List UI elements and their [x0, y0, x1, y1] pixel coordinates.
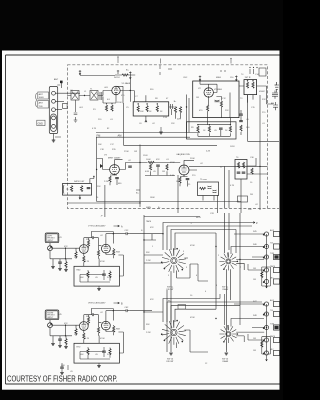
resistor under converter 3: [229, 126, 231, 132]
svg-text:1ST IF: 1ST IF: [245, 77, 252, 79]
wire ground mid IF: [160, 127, 162, 132]
LEFT PHONO INPUT box: [45, 233, 59, 243]
V7a electrodes: [82, 244, 87, 253]
rotor SW1a front: [161, 248, 186, 273]
wire B+ bus segment: [115, 74, 135, 76]
resistor row under converter 2: [208, 126, 210, 132]
wire detector loads to bus: [145, 167, 175, 176]
jack box SPARE L: [274, 279, 280, 284]
dashed tuner enclosure box: [68, 65, 280, 209]
wire terminal3: [55, 109, 62, 111]
feedback resistor 1: [87, 272, 89, 278]
jack box SPARE R: [274, 350, 280, 355]
brace for antenna labels: [35, 93, 38, 107]
cap C21 vertical: [156, 165, 160, 166]
bias dots: [106, 103, 113, 104]
wire cap stack: [240, 110, 242, 135]
white scanned page: [2, 51, 280, 390]
svg-text:REAR: REAR: [223, 288, 229, 291]
ratio det winding 2: [242, 162, 244, 168]
svg-text:→B: →B: [235, 201, 239, 203]
V3 cathode network resistor: [109, 176, 111, 182]
V7b electrodes: [104, 244, 109, 253]
svg-text:T.B.: T.B.: [270, 243, 274, 245]
tick marks B+ strip: [160, 65, 254, 75]
svg-text:6FB7 12AX7: 6FB7 12AX7: [108, 157, 121, 160]
jack TUNER L shielded: [263, 255, 269, 259]
wire V1 leads: [111, 86, 123, 103]
svg-text:V2 6BE6: V2 6BE6: [214, 89, 223, 91]
svg-text:1M: 1M: [253, 279, 256, 281]
svg-text:ANT: ANT: [39, 102, 44, 105]
svg-text:300Ω: 300Ω: [39, 97, 44, 99]
jack SPARE R: [263, 351, 269, 355]
svg-text:470K: 470K: [100, 261, 105, 263]
svg-text:AM: AM: [118, 134, 122, 138]
output cap: [125, 309, 129, 312]
jack TUNER R shielded: [263, 325, 269, 329]
wire decoupling: [62, 363, 68, 372]
feedback resistor 2: [109, 349, 111, 355]
coil box 1: [71, 91, 79, 101]
tube V8a envelope: [79, 322, 88, 331]
resistor bracket lower jacks: [262, 337, 271, 354]
B+ arrow into converter: [199, 76, 201, 82]
wire V8b plate out: [106, 311, 125, 322]
V2 cathode resistor: [207, 105, 209, 111]
wire grid leak: [98, 246, 100, 259]
svg-text:75 usec: 75 usec: [200, 179, 207, 181]
AM loop antenna symbol: [275, 82, 280, 92]
wire right edge vertical: [267, 82, 277, 104]
wire converter bottom bus: [198, 118, 231, 137]
cathode resistor V7b: [113, 249, 115, 255]
wire rotor1 right link: [190, 264, 208, 281]
left column cap cluster: [75, 100, 77, 120]
coupling cap C20: [128, 166, 132, 167]
antenna lead-in wire: [57, 82, 61, 88]
V4 electrodes: [182, 165, 187, 175]
wire grid resistor: [75, 325, 77, 336]
svg-text:1W: 1W: [134, 151, 137, 153]
B plus wire phono: [91, 232, 113, 244]
pin dots row top right: [220, 67, 257, 72]
wire converter to T3: [239, 85, 267, 87]
wire V8a plate up: [84, 315, 92, 322]
de-emphasis cap curl 1: [208, 186, 212, 189]
wire rotor2 drops: [226, 263, 244, 352]
wire V3 output right: [119, 163, 147, 170]
ground input left: [51, 267, 55, 269]
wire V7a plate up: [84, 238, 92, 245]
svg-text:TUN: TUN: [270, 253, 275, 255]
ticks above dashed line: [118, 57, 231, 64]
coil X symbol 2: [91, 92, 97, 100]
wire plate r: [88, 238, 90, 249]
svg-text:FRONT: FRONT: [167, 289, 175, 291]
wire IF strip verticals: [169, 95, 189, 133]
tube V4 envelope: [179, 165, 189, 175]
svg-text:INPUT: INPUT: [47, 317, 54, 319]
wire jack to grid: [50, 243, 80, 249]
wire fb gnd: [98, 363, 100, 365]
FM antenna coil L1: [67, 95, 103, 97]
wire cathode V7a: [83, 253, 85, 266]
svg-text:180K: 180K: [150, 197, 155, 199]
ground decoupling: [60, 373, 64, 375]
label box ANT 300 ohm: [38, 92, 49, 99]
main vertical wire center: [136, 145, 140, 208]
jack pin: [48, 324, 51, 327]
jack box AUX R: [274, 301, 280, 306]
ground input cap: [58, 346, 62, 348]
jack box TAPE L: [274, 244, 280, 249]
V1 bias resistor b: [111, 105, 113, 111]
plate resistor V8a: [87, 317, 89, 323]
selector bus nested wires lower: [163, 299, 262, 323]
terminal 2: [52, 99, 56, 103]
svg-text:ANT: ANT: [39, 93, 44, 96]
tube V7a envelope: [79, 245, 88, 254]
svg-text:270K: 270K: [124, 151, 129, 153]
wire below input elements: [60, 264, 66, 270]
ground input cap: [58, 269, 62, 271]
wire V2 cathode: [208, 97, 209, 117]
svg-text:1M: 1M: [253, 268, 256, 270]
de-emphasis network box: [198, 182, 219, 196]
coupling cap: [91, 313, 95, 316]
wire T3 down: [248, 95, 254, 103]
decoupling caps below right channel: [60, 367, 64, 368]
svg-text:GND: GND: [38, 122, 44, 125]
feedback wiring: [80, 270, 110, 282]
wire cathode V7b: [106, 248, 114, 258]
terminal 3: [52, 108, 56, 112]
wire V3 cathode: [110, 174, 117, 185]
wire across lower mid: [68, 202, 242, 204]
svg-text:AUX: AUX: [270, 229, 275, 232]
svg-text:1M: 1M: [74, 257, 77, 259]
wire nested drop to rotor2: [216, 213, 240, 309]
jack feed dot: [266, 246, 267, 247]
det coil brace: [62, 185, 65, 194]
rotor SW1b rear: [219, 325, 238, 343]
svg-text:5.6K: 5.6K: [107, 277, 112, 279]
svg-text:2.2M: 2.2M: [104, 181, 109, 183]
tube V8b envelope: [102, 321, 111, 330]
ground below rotor1: [169, 353, 173, 355]
tube V7b envelope: [102, 244, 111, 253]
feedback cap 1: [102, 274, 106, 275]
wire verticals crossing divider: [105, 166, 241, 217]
jack box MIC L: [274, 267, 280, 272]
wire V2 plate top: [200, 81, 217, 93]
wire coil to V1: [103, 91, 112, 96]
wire below upper jacks: [266, 284, 268, 288]
svg-text:MIC: MIC: [270, 349, 274, 351]
wire rotor4 to jacks: [231, 304, 264, 332]
RIGHT PHONO INPUT box: [45, 310, 59, 320]
jack column vertical link lower: [266, 304, 268, 353]
tube V1 6AU8 envelope: [112, 86, 120, 94]
svg-text:ANT: ANT: [54, 78, 59, 81]
left column cap: [74, 113, 78, 115]
svg-text:105V: 105V: [230, 146, 235, 148]
svg-text:COURTESY OF FISHER RADIO CORP.: COURTESY OF FISHER RADIO CORP.: [7, 374, 118, 383]
row dots: [197, 124, 198, 125]
det element 3: [87, 188, 91, 189]
page frame border: [6, 55, 280, 384]
jack box TUNER R: [274, 325, 280, 330]
T3 winding left: [246, 82, 248, 88]
wire cathode V8a: [83, 330, 85, 343]
input ground bus: [50, 248, 72, 266]
resistor R21 vertical: [149, 164, 151, 170]
svg-text:1M: 1M: [162, 171, 165, 173]
right phono channel: [45, 302, 152, 368]
diode arrow 1: [100, 164, 103, 168]
svg-text:2M: 2M: [250, 194, 253, 196]
electrolytic right: [251, 168, 253, 174]
cap right of T2: [171, 104, 173, 115]
ground link plate: [51, 114, 57, 131]
svg-text:FM: FM: [97, 134, 101, 138]
ratio detector box: [235, 160, 247, 180]
wire ratio det right: [247, 150, 268, 210]
svg-text:MIC: MIC: [270, 278, 274, 280]
bracket resistor element lower: [261, 341, 263, 347]
input bus dots: [65, 325, 66, 337]
svg-text:V8 ECC83/12AX7: V8 ECC83/12AX7: [88, 302, 106, 305]
cap stack right 1: [239, 114, 243, 115]
wire V4 cathode: [180, 175, 188, 187]
jack TAPE R: [263, 312, 269, 316]
svg-text:6.8K: 6.8K: [145, 171, 150, 173]
svg-text:TAPE: TAPE: [146, 220, 152, 223]
resistor bracket upper jacks: [262, 267, 271, 286]
1st IF can T3: [244, 80, 257, 95]
svg-text:6AQ8/ECC85: 6AQ8/ECC85: [177, 153, 191, 156]
ground feedback: [97, 366, 101, 368]
B+ arrow into converter right: [235, 76, 237, 82]
B+ feed symbol 2 with resistor: [114, 70, 120, 79]
coupling cap: [91, 236, 95, 239]
cap stack right 2: [239, 121, 243, 122]
svg-text:1M: 1M: [196, 97, 199, 99]
wire grid resistor: [75, 248, 77, 259]
decoupling resistor on B+ bus: [122, 74, 128, 76]
feedback cap 1: [102, 351, 106, 352]
wire below input elements: [60, 341, 66, 347]
input resistor: [65, 339, 67, 345]
V2 electrodes: [206, 88, 211, 98]
det T feed dot: [93, 176, 94, 177]
ground input left: [51, 344, 55, 346]
svg-text:2.2M: 2.2M: [146, 260, 151, 262]
small box lower bus: [178, 305, 186, 310]
ground feedback: [97, 289, 101, 291]
rotor SW1b front: [161, 320, 186, 345]
svg-text:REAR: REAR: [223, 360, 229, 363]
jack pin: [48, 247, 51, 250]
svg-text:TAPE: TAPE: [270, 335, 276, 338]
label box ANT 75 ohm: [38, 101, 49, 109]
wire cap to V8b grid: [95, 315, 101, 323]
svg-text:T.B.: T.B.: [270, 310, 274, 312]
svg-text:100K: 100K: [146, 159, 151, 161]
svg-text:AUX: AUX: [270, 299, 275, 302]
svg-text:75Ω: 75Ω: [39, 106, 43, 108]
wire det box up: [90, 177, 94, 184]
wire feedback to cathode: [99, 255, 123, 276]
T2 top dots: [138, 103, 139, 104]
wire left feed vertical: [144, 215, 163, 330]
svg-text:2.2K: 2.2K: [206, 151, 211, 153]
grid resistor 1M: [75, 329, 77, 335]
V4 cathode cap: [186, 179, 190, 180]
resistor net right of T2 b: [179, 107, 181, 113]
T2 winding 3: [156, 106, 158, 112]
svg-text:4.7K: 4.7K: [92, 128, 97, 130]
svg-text:2.2M: 2.2M: [146, 332, 151, 334]
wire rotor1 bottom drops: [167, 258, 190, 352]
svg-text:1M: 1M: [253, 350, 256, 352]
wire jack stubs: [144, 217, 264, 341]
B+ arrow into V1 plate choke: [129, 72, 131, 80]
svg-text:456KC: 456KC: [259, 91, 266, 93]
wire V7b plate out: [106, 234, 125, 245]
cathode resistor V7a: [83, 256, 85, 262]
cap under converter: [219, 128, 223, 129]
selector bus nested wires upper: [163, 223, 252, 251]
jack feed dot lower: [266, 313, 267, 314]
arrow Z output: [252, 222, 255, 224]
ratio det winding 1: [237, 162, 239, 168]
bracket resistor element: [261, 272, 263, 278]
terminal 5: [52, 125, 56, 129]
ground below rotor2: [225, 353, 229, 355]
svg-text:150V: 150V: [143, 155, 148, 157]
jack column vertical link upper: [266, 234, 268, 288]
de-emphasis cap curl 2: [213, 190, 217, 193]
resistor row under converter 1: [197, 126, 199, 132]
V3 cathode cap: [115, 178, 119, 179]
T2 winding 2: [146, 106, 148, 112]
svg-text:220K: 220K: [190, 158, 195, 160]
interstage transformer box T2: [133, 102, 169, 116]
wire de-emphasis down: [203, 196, 214, 201]
jack SPARE L: [263, 279, 269, 283]
small box right of de-emphasis: [238, 196, 248, 202]
wire terminal2: [55, 100, 64, 102]
det element 2: [81, 186, 83, 192]
T3 dots: [247, 80, 248, 81]
svg-text:3.3K: 3.3K: [170, 175, 175, 177]
svg-text:1M: 1M: [253, 338, 256, 340]
svg-text:1M: 1M: [74, 334, 77, 336]
V8a electrodes: [82, 321, 87, 330]
jack box TAPE R: [274, 311, 280, 316]
coil junction dot: [84, 95, 85, 96]
B+ feed symbol 1: [79, 70, 81, 75]
terminal strip TB1: [49, 87, 57, 134]
T2 winding 1: [137, 106, 139, 112]
wire jack to grid: [50, 320, 80, 326]
plate resistor V7a: [87, 240, 89, 246]
wire V3 plate up: [115, 160, 123, 165]
ground input resistor: [64, 270, 68, 272]
jack TAPE L: [263, 244, 269, 248]
svg-text:P.U.: P.U.: [168, 301, 172, 303]
svg-text:TAPE: TAPE: [270, 265, 276, 268]
svg-text:470K: 470K: [100, 338, 105, 340]
wire V1 plate to T2: [123, 79, 134, 102]
RF coil T1 secondary: [100, 92, 102, 100]
resistor R20 horizontal: [148, 161, 154, 163]
feedback box: [74, 343, 119, 363]
T3 winding right: [252, 82, 254, 88]
jack MIC L: [263, 268, 269, 272]
svg-text:R4 1K: R4 1K: [114, 77, 120, 79]
wire plate r: [88, 315, 90, 326]
jack MIC R: [263, 338, 269, 342]
svg-text:1.5K: 1.5K: [163, 117, 168, 119]
input cap: [58, 262, 62, 263]
jack AUX R: [263, 302, 269, 306]
svg-text:AM: AM: [271, 102, 274, 105]
svg-text:OSC: OSC: [183, 77, 188, 79]
ground below strip: [52, 140, 56, 142]
label GND box: [37, 120, 45, 125]
antenna terminal square: [60, 81, 63, 84]
svg-text:5.6K: 5.6K: [107, 354, 112, 356]
svg-text:470K: 470K: [170, 162, 175, 164]
V2 grid cap C11: [215, 100, 220, 102]
cathode resistor V8b: [113, 326, 115, 332]
svg-text:V7 ECC83/12AX7: V7 ECC83/12AX7: [88, 225, 106, 228]
wire feedback to cathode: [99, 332, 123, 353]
resistor net right of T2: [174, 107, 176, 113]
de-emphasis resistor: [200, 187, 206, 189]
coil X symbol 1: [72, 92, 78, 100]
left phono channel: [45, 225, 163, 291]
V3 grid components left: [97, 137, 110, 201]
svg-text:V1 6AU8: V1 6AU8: [122, 82, 132, 85]
svg-text:MON: MON: [196, 217, 201, 219]
jack box TUNER L: [274, 254, 280, 259]
input ground bus: [50, 325, 72, 343]
wire B+ rail top: [80, 75, 115, 77]
resistor stack right: [240, 125, 242, 131]
terminal 4: [52, 116, 56, 120]
jack box MIC R: [274, 337, 280, 342]
wire efter R20: [153, 162, 180, 164]
FM detector transformer box: [63, 184, 92, 196]
wire V1 cathode down: [103, 95, 116, 103]
V1 bias resistor a: [105, 105, 107, 111]
wire terminal1 to tuner: [55, 92, 80, 94]
ground bus under V1 stage: [96, 133, 200, 138]
svg-text:2.7K: 2.7K: [85, 338, 90, 340]
phono jack right ch: [48, 323, 53, 328]
wire T2 bottom lead: [145, 95, 147, 122]
input cap: [58, 339, 62, 340]
wire osc: [216, 93, 230, 118]
wire grid leak: [98, 323, 100, 336]
wire cap to V7b grid: [95, 238, 101, 246]
wire cathode V8b: [106, 325, 114, 335]
svg-text:220K: 220K: [117, 102, 122, 104]
